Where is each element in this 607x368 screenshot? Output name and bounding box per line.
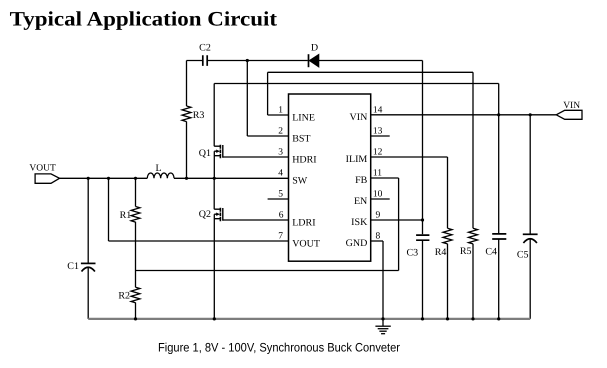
svg-text:7: 7 (278, 231, 283, 241)
capacitor C4 (492, 234, 506, 239)
pin 3 wire (HDRI to Q1 gate) (223, 156, 289, 158)
pin 8 stub (371, 240, 383, 242)
svg-text:C2: C2 (199, 43, 211, 54)
svg-text:R3: R3 (193, 110, 205, 121)
capacitor C2 (203, 55, 207, 66)
IC U1 (289, 94, 371, 261)
wire LINE riser x=267.6 (267, 72, 269, 115)
junction node bus/R2 (134, 317, 137, 320)
svg-text:Figure 1, 8V - 100V, Synchrono: Figure 1, 8V - 100V, Synchronous Buck Co… (158, 341, 400, 355)
junction node bus/R4 (446, 317, 449, 320)
pin 2 stub (247, 135, 288, 137)
wire R3 branch x=186.5 (186, 61, 188, 179)
diode D (309, 54, 319, 67)
svg-text:9: 9 (376, 210, 381, 220)
wire VIN bus y=114.8 (371, 114, 557, 116)
pin 1 stub (268, 114, 289, 116)
resistor R2 (131, 287, 140, 303)
junction node bus/Q2 (213, 317, 216, 320)
resistor R5 (469, 228, 478, 244)
svg-text:R2: R2 (118, 290, 130, 301)
wire GND drop x=383 (382, 241, 384, 319)
pin 6 wire (LDRI to Q2 gate) (223, 219, 289, 221)
VOUT tag (35, 174, 59, 183)
pin 12 wire (ILIM to R4) (371, 156, 448, 158)
svg-text:Typical Application Circuit: Typical Application Circuit (10, 8, 278, 30)
svg-text:Q2: Q2 (199, 209, 211, 220)
junction node bus/C4 (497, 317, 500, 320)
svg-text:14: 14 (373, 105, 383, 115)
capacitor C1 (polarized) (81, 263, 96, 271)
svg-text:VOUT: VOUT (292, 238, 320, 249)
wire FB horizontal y=270.5 (136, 270, 399, 272)
svg-text:GND: GND (346, 238, 368, 249)
wire BST riser x=247.3 (246, 61, 248, 137)
svg-text:L: L (156, 163, 162, 174)
pin 7 wire (109, 240, 289, 242)
svg-text:12: 12 (373, 147, 383, 157)
svg-text:VIN: VIN (350, 112, 368, 123)
pin 13 stub (371, 135, 390, 137)
wire R4 branch x=447.5 (447, 157, 449, 319)
pin names left (292, 112, 320, 249)
svg-text:2: 2 (278, 126, 283, 136)
wire Q1drain-to-C4 y=83.5 (214, 83, 499, 85)
svg-text:LDRI: LDRI (292, 217, 315, 228)
transistor Q2 (214, 178, 223, 319)
wire diode drop / C3 branch x=422.5 (422, 61, 424, 319)
svg-text:EN: EN (354, 196, 367, 207)
junction node VIN/C5 (529, 113, 532, 116)
svg-text:R1: R1 (120, 210, 132, 221)
pin names right (346, 112, 368, 249)
svg-text:C4: C4 (485, 247, 497, 258)
junction node BST/C2 (246, 59, 249, 62)
svg-text:LINE: LINE (292, 112, 315, 123)
wire LINE-to-R5 y=72.3 (268, 71, 473, 73)
resistor R4 (443, 228, 452, 244)
svg-text:HDRI: HDRI (292, 154, 316, 165)
svg-text:R4: R4 (435, 247, 447, 258)
wire FB drop x=398.6 (398, 178, 400, 271)
junction node VOUT/pin7 (107, 177, 110, 180)
pin 5 stub (268, 198, 289, 200)
pin 9 wire (ISK to C3) (371, 219, 423, 221)
junction node VIN/C4 (497, 113, 500, 116)
svg-text:11: 11 (373, 168, 382, 178)
svg-text:FB: FB (355, 175, 368, 186)
svg-text:C5: C5 (517, 249, 529, 260)
svg-text:SW: SW (292, 175, 308, 186)
wire C4 branch x=498.7 (498, 84, 500, 319)
svg-text:8: 8 (376, 231, 381, 241)
svg-text:C3: C3 (407, 248, 419, 259)
wire C1 branch x=88.2 (87, 178, 89, 319)
svg-text:ILIM: ILIM (346, 154, 368, 165)
svg-text:4: 4 (278, 168, 283, 178)
svg-text:1: 1 (278, 105, 283, 115)
junction node bus/GND (381, 317, 384, 320)
svg-text:D: D (311, 43, 318, 54)
wire C5 branch x=530.2 (529, 115, 531, 319)
svg-text:BST: BST (292, 133, 310, 144)
junction node bus/R5 (471, 317, 474, 320)
wire pin7 riser x=108.5 (108, 178, 110, 241)
inductor L (147, 173, 174, 178)
capacitor C3 (416, 235, 429, 240)
wire R5 branch x=473 (472, 72, 474, 319)
svg-text:R5: R5 (460, 246, 472, 257)
wire SW/VOUT rail y=178.3 (60, 177, 289, 179)
svg-text:10: 10 (373, 189, 383, 199)
wire R1/R2 branch x=135.5 (135, 178, 137, 319)
svg-text:VOUT: VOUT (29, 164, 56, 174)
junction node SW/Q1Q2 (213, 177, 216, 180)
svg-text:5: 5 (278, 189, 283, 199)
junction node ISK/C3 (421, 218, 424, 221)
svg-text:3: 3 (278, 147, 283, 157)
junction node SW/R3 (185, 177, 188, 180)
svg-text:C1: C1 (67, 261, 79, 272)
svg-text:Q1: Q1 (199, 148, 211, 159)
capacitor C5 (polarized) (523, 234, 538, 243)
wire BST/diode top line y=60.5 (187, 60, 423, 62)
svg-text:6: 6 (279, 210, 284, 220)
ground symbol (375, 319, 390, 334)
resistor R1 (131, 207, 140, 223)
svg-text:13: 13 (373, 126, 383, 136)
pin numbers left (278, 105, 284, 241)
junction node VOUT/R1 (134, 177, 137, 180)
junction node bus/C3 (421, 317, 424, 320)
pin numbers right (373, 105, 383, 241)
resistor R3 (182, 106, 191, 122)
svg-text:VIN: VIN (563, 101, 580, 111)
junction node VOUT/C1 (87, 177, 90, 180)
VIN tag (556, 110, 582, 119)
svg-text:ISK: ISK (351, 217, 368, 228)
ground bus (gray) y=318.9 (88, 318, 530, 320)
pin 10 stub (371, 198, 390, 200)
pin 11 wire (FB) (371, 177, 399, 179)
transistor Q1 (214, 84, 223, 179)
